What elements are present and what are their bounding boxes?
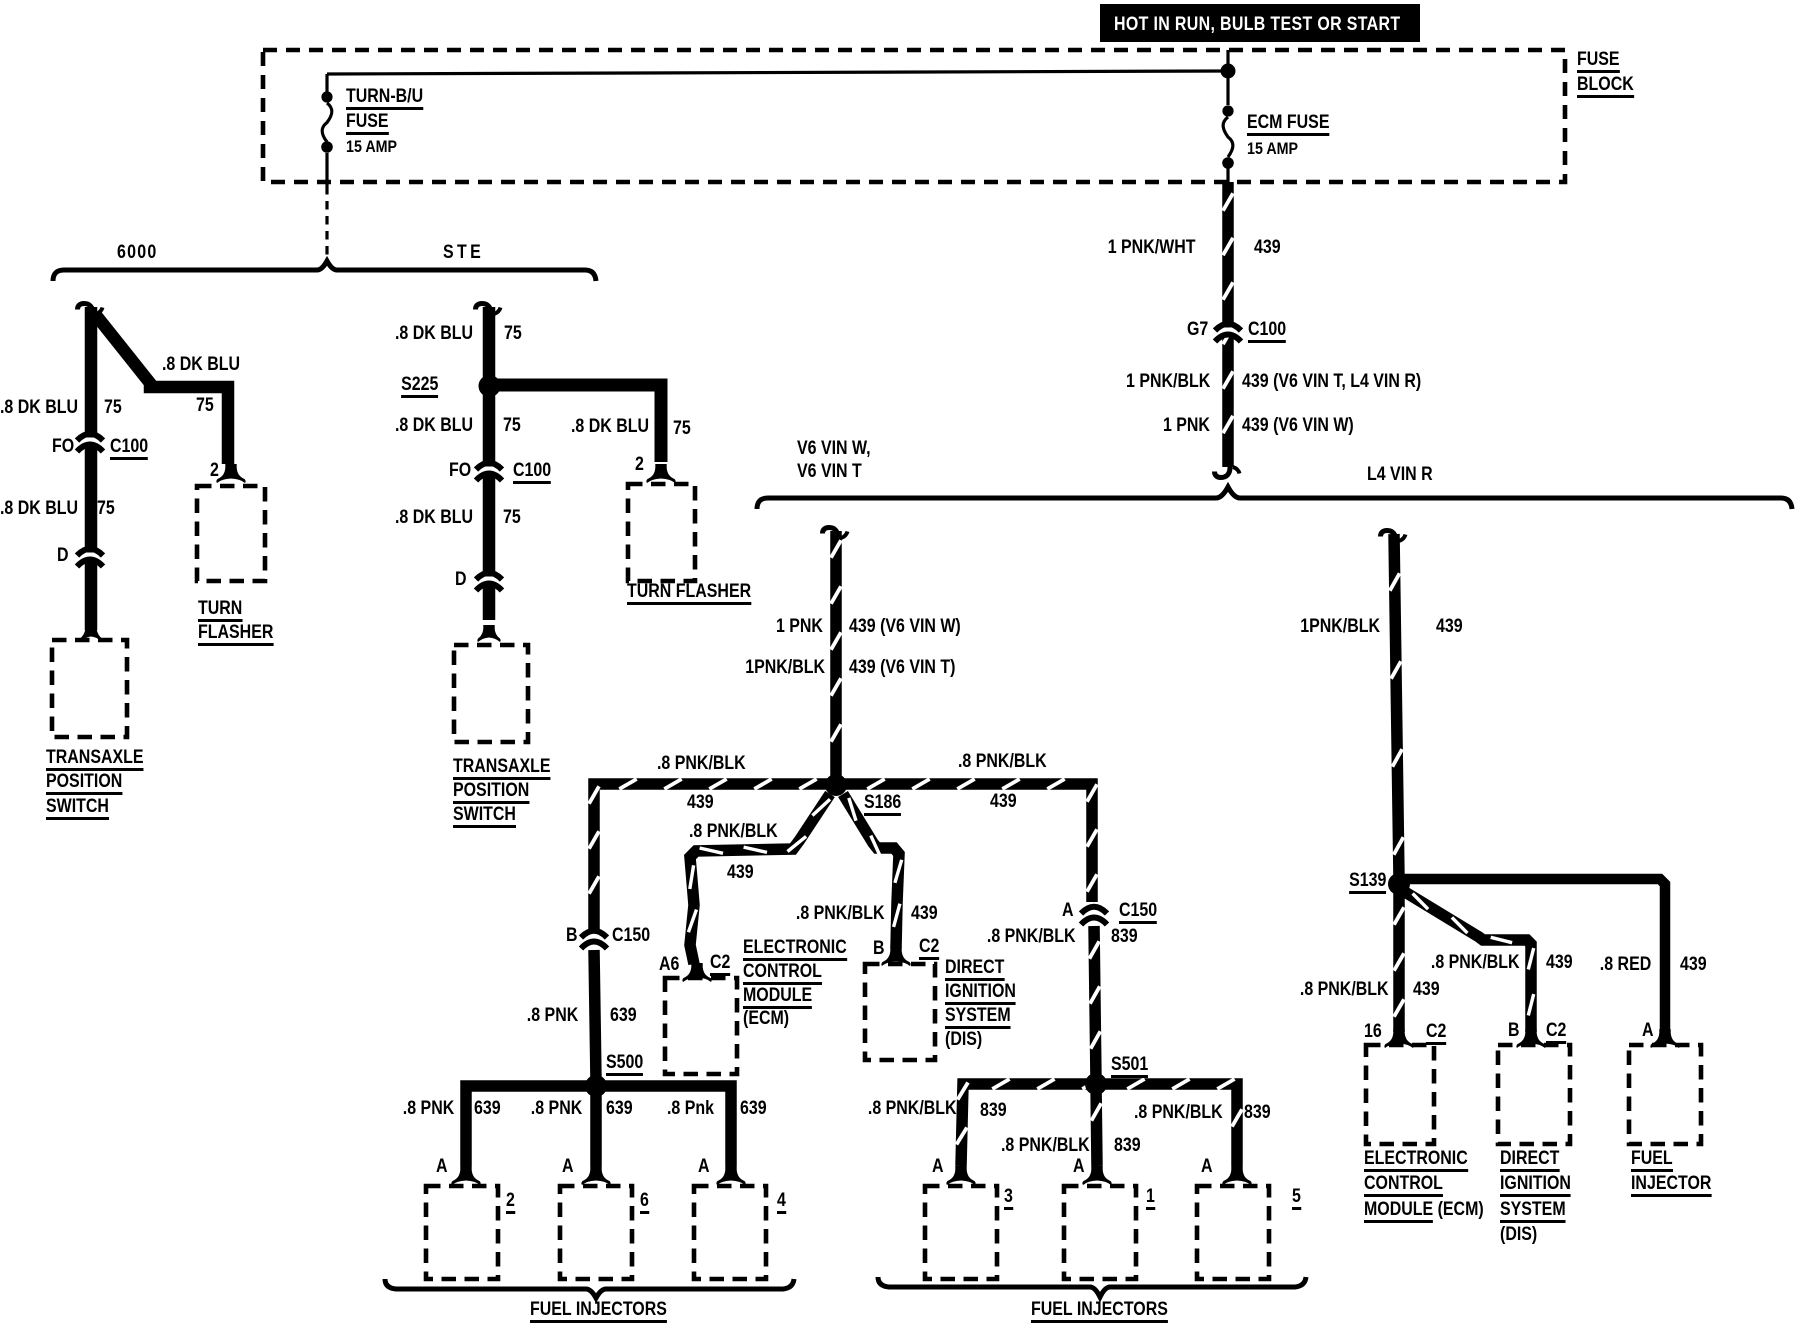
label .8 DK BLU (to left flasher) (162, 355, 240, 374)
wire .8 PNK/BLK 839 to injector 1 (1096, 1084, 1097, 1166)
label 3 (injector) (1004, 1187, 1013, 1210)
label (DIS) (center) (945, 1030, 982, 1049)
label C2 (ecm right) (1426, 1022, 1446, 1045)
label IGNITION (right) (1500, 1174, 1571, 1197)
label .8 PNK (inj6) (531, 1099, 582, 1118)
title bar HOT IN RUN, BULB TEST OR START (1100, 4, 1420, 42)
label INJECTOR (right) (1631, 1174, 1711, 1197)
wire 1 PNK/WHT 439 from ecm fuse (1222, 182, 1234, 467)
pin 2 flare into left turn flasher (216, 464, 245, 483)
label .8 PNK/BLK (inj3) (868, 1099, 957, 1118)
pin B flare into DIS (C2) (1516, 1029, 1545, 1048)
label A (inj4) (698, 1157, 710, 1176)
label pin 2 (left flasher) (210, 461, 219, 480)
label 6000 (117, 243, 158, 262)
box left turn flasher (197, 486, 265, 581)
wire .8 PNK/BLK 839 S501 manifold to injectors 3 and 5 (961, 1084, 1237, 1166)
wire ecm fuse feed stub from top edge (1226, 50, 1229, 71)
connector C100 terminal FO (STE) (475, 467, 504, 474)
box right transaxle position switch (454, 645, 528, 742)
pin flare into right transaxle position switch (477, 625, 500, 642)
label B (c2 right) (1508, 1021, 1520, 1040)
label .8 PNK/BLK (inj1) (1001, 1136, 1090, 1155)
box fuel injector 5 (1197, 1186, 1269, 1279)
label IGNITION (center) (945, 982, 1016, 1005)
pin A flare injector 6 (581, 1166, 610, 1185)
box fuel injector right (1629, 1045, 1701, 1144)
label 639 (inj4) (740, 1099, 767, 1118)
label 75 (6000 lower) (97, 499, 115, 518)
box direct ignition system center (DIS) (865, 964, 935, 1060)
label D (ste) (455, 570, 467, 589)
label C2 (a6) (710, 953, 730, 976)
label 75 (ste mid) (503, 416, 521, 435)
connector terminal D (STE) (475, 577, 504, 584)
label 2 (injector) (506, 1191, 515, 1214)
label 439 (to ecm a6) (727, 863, 754, 882)
label 439 (V6 VIN W) (1242, 416, 1354, 435)
connector C150 terminal A (1080, 911, 1109, 918)
label POSITION (left) (46, 772, 122, 795)
label 75 (ste upper) (504, 324, 522, 343)
label B (c2 dis) (873, 939, 885, 958)
label ECM FUSE (1247, 113, 1329, 136)
label .8 PNK/BLK (s139 dis) (1431, 953, 1520, 972)
label 439 (s139 ecm) (1413, 980, 1440, 999)
label .8 PNK/BLK (s186 right) (958, 752, 1047, 771)
label CONTROL (center) (743, 962, 822, 985)
label SYSTEM (right) (1500, 1200, 1566, 1223)
label .8 PNK/BLK (to dis b) (796, 904, 885, 923)
splice S225 (479, 375, 501, 397)
label .8 PNK (to s500) (527, 1006, 578, 1025)
label 75 (6000 upper) (104, 398, 122, 417)
label 1 PNK (v6) (776, 617, 823, 636)
label BLOCK (fuse block) (1577, 75, 1634, 98)
label S501 (1111, 1055, 1148, 1078)
fuse TURN-B/U FUSE 15 AMP (325, 74, 328, 92)
label C150 (a) (1119, 901, 1157, 924)
bracket fuel injectors group 1 (385, 1279, 794, 1298)
label D (6000) (57, 546, 69, 565)
label FUEL (right) (1631, 1149, 1673, 1172)
label .8 DK BLU (ste lower) (395, 508, 473, 527)
label SYSTEM (center) (945, 1006, 1011, 1029)
wire .8 PNK/BLK 439 S186 right arm (836, 784, 1092, 902)
label .8 PNK/BLK (s139 ecm) (1300, 980, 1389, 999)
label 839 (to s501) (1111, 927, 1138, 946)
label TURN FLASHER (right) (627, 582, 751, 605)
wire .8 PNK/BLK 439 S186 to DIS B (843, 794, 899, 948)
connector C100 terminal FO (6000) (76, 438, 105, 445)
pin A flare into fuel injector (1650, 1029, 1679, 1048)
label 75 (to right flasher) (673, 419, 691, 438)
label A6 (659, 955, 679, 974)
connector C100 terminal G7 (1214, 328, 1243, 335)
fuse block (dashed outline) (263, 50, 1565, 182)
label .8 PNK/BLK (to s501) (987, 927, 1076, 946)
label S225 (401, 375, 438, 398)
label .8 DK BLU (6000 lower) (0, 499, 78, 518)
label 639 (inj2) (474, 1099, 501, 1118)
label FO (ste) (449, 461, 471, 480)
label FUEL INJECTORS group 1 (530, 1300, 667, 1323)
label A (inj1) (1073, 1157, 1085, 1176)
wire dashed drop from turn-b/u fuse to 6000/STE bracket (325, 186, 328, 256)
label TRANSAXLE (ste) (453, 757, 551, 780)
label FLASHER (left flasher) (198, 623, 273, 646)
label TURN-B/U (346, 87, 423, 110)
bracket 6000/STE branch (53, 261, 596, 281)
label TRANSAXLE (left) (46, 748, 144, 771)
label A (inj2) (436, 1157, 448, 1176)
label V6 VIN W, (797, 439, 871, 458)
label .8 PNK/BLK (inj5) (1134, 1103, 1223, 1122)
label .8 RED (1600, 955, 1651, 974)
label 439 (s186 left) (687, 793, 714, 812)
label B (c150) (566, 926, 578, 945)
wire .8 DK BLU 75 (STE vertical) (483, 307, 496, 620)
wire feed line from turn-b/u fuse to ecm fuse (327, 71, 1228, 74)
connector terminal D (6000) (76, 553, 105, 560)
box fuel injector 2 (426, 1186, 498, 1279)
label POSITION (ste) (453, 781, 529, 804)
wire .8 DK BLU 75 from S225 to right turn flasher (495, 385, 661, 462)
label (DIS) (right) (1500, 1225, 1537, 1244)
box electronic control module center (ECM) (665, 978, 737, 1074)
label 839 (inj5) (1244, 1103, 1271, 1122)
wire .8 DK BLU 75 (6000 branch vertical) (85, 307, 98, 630)
pin A flare injector 2 (451, 1166, 480, 1185)
bracket V6 VIN W,T / L4 VIN R branch (757, 487, 1792, 509)
label 439 (pnk/wht) (1254, 238, 1281, 257)
wire .8 PNK/BLK 439 S139 to DIS B (1405, 892, 1531, 1032)
label 439 (V6 VIN T, L4 VIN R) (1242, 372, 1421, 391)
wire start curl V6 branch (823, 528, 839, 539)
label 16 (c2) (1364, 1022, 1382, 1041)
splice S139 (1388, 873, 1410, 895)
label 15 AMP (turn-b/u) (346, 138, 397, 155)
label 5 (injector) (1292, 1187, 1301, 1210)
pin B flare into DIS (C2) (881, 947, 910, 966)
label A (inj6) (562, 1157, 574, 1176)
label FUSE (turn-b/u) (346, 112, 389, 135)
label 639 (to s500) (610, 1006, 637, 1025)
label MODULE (center) (743, 986, 812, 1009)
label 439 (V6 VIN T) mid (849, 658, 955, 677)
wire start curl L4 branch (1381, 531, 1397, 542)
splice S186 (825, 774, 847, 796)
wire end curl above V6/L4 bracket (1215, 467, 1231, 478)
label 1 PNK/BLK (c100) (1126, 372, 1210, 391)
label C100 (g7) (1248, 320, 1286, 343)
label SWITCH (ste) (453, 805, 516, 828)
label A (fuel injector right) (1642, 1021, 1654, 1040)
box fuel injector 1 (1064, 1186, 1136, 1279)
label 639 (inj6) (606, 1099, 633, 1118)
pin A flare injector 5 (1222, 1166, 1251, 1185)
label 439 (red) (1680, 955, 1707, 974)
label 75 (to left flasher) (196, 396, 214, 415)
label 439 (l4) (1436, 617, 1463, 636)
wire .8 PNK 639 S500 manifold to injectors 2 and 4 (466, 1086, 731, 1166)
box fuel injector 4 (694, 1186, 766, 1279)
wire 1 PNK / 1 PNK-BLK 439 (V6 down to S186) (830, 531, 842, 780)
wire .8 PNK 639 from C150 B to S500 (594, 950, 596, 1080)
pin A flare injector 1 (1082, 1166, 1111, 1185)
label MODULE (ECM) (right) (1364, 1200, 1484, 1223)
label .8 PNK/BLK (to ecm a6) (689, 822, 778, 841)
label C100 (6000) (110, 437, 148, 460)
label .8 Pnk (inj4) (667, 1099, 714, 1118)
label 75 (ste lower) (503, 508, 521, 527)
label DIRECT (center) (945, 958, 1004, 981)
label .8 DK BLU (6000 upper) (0, 398, 78, 417)
label 839 (inj3) (980, 1101, 1007, 1120)
label STE (443, 243, 484, 262)
label 1 (injector) (1146, 1187, 1155, 1210)
label .8 PNK/BLK (s186 left) (657, 754, 746, 773)
box fuel injector 6 (560, 1186, 632, 1279)
label ELECTRONIC (center) (743, 938, 847, 961)
label 4 (injector) (777, 1191, 786, 1214)
fuse ECM FUSE 15 AMP (1226, 71, 1229, 105)
connector C150 terminal B (580, 935, 609, 942)
label SWITCH (left) (46, 797, 109, 820)
splice S500 (585, 1075, 607, 1097)
box left transaxle position switch (52, 640, 127, 737)
label 1 PNK (c100) (1163, 416, 1210, 435)
label 439 (V6 VIN W) mid (849, 617, 961, 636)
wire .8 PNK/BLK 839 from C150 A to S501 (1094, 926, 1096, 1080)
wire .8 DK BLU 75 branch to left turn flasher (95, 314, 228, 464)
label 439 (s186 right) (990, 792, 1017, 811)
label S500 (606, 1053, 643, 1076)
label FUEL INJECTORS group 2 (1031, 1300, 1168, 1323)
wire .8 PNK/BLK 439 S186 to ECM A6 (690, 794, 830, 964)
label .8 DK BLU (to right flasher) (571, 417, 649, 436)
wire .8 PNK/BLK 439 S186 left arm (594, 784, 836, 930)
box direct ignition system right (DIS) (1498, 1045, 1570, 1144)
wire start curl 6000 branch (78, 304, 94, 315)
label A (inj3) (932, 1157, 944, 1176)
label title HOT IN RUN, BULB TEST OR START (1114, 15, 1400, 34)
wire .8 PNK/BLK 439 S139 to ECM 16 (1393, 890, 1405, 1032)
junction ecm fuse feed (1221, 64, 1236, 79)
label 839 (inj1) (1114, 1136, 1141, 1155)
label CONTROL (right) (1364, 1174, 1443, 1197)
label 439 (s139 dis) (1546, 953, 1573, 972)
label S139 (1349, 871, 1386, 894)
label C150 (b) (612, 926, 650, 945)
pin A flare injector 4 (716, 1166, 745, 1185)
pin flare into left transaxle position switch (80, 625, 101, 641)
label pin 2 (right flasher) (635, 455, 644, 474)
label .8 PNK (inj2) (403, 1099, 454, 1118)
label .8 DK BLU (ste upper) (395, 324, 473, 343)
bracket fuel injectors group 2 (878, 1277, 1306, 1297)
label G7 (1187, 320, 1208, 339)
label TURN (left flasher) (198, 599, 242, 622)
label C100 (ste) (513, 461, 551, 484)
pin A6 flare into ECM (C2) (682, 963, 711, 982)
label 1PNK/BLK (l4) (1300, 617, 1380, 636)
label C2 (dis center) (919, 937, 939, 960)
label V6 VIN T (797, 462, 862, 481)
label L4 VIN R (1367, 465, 1433, 484)
label A (inj5) (1201, 1157, 1213, 1176)
label A (c150) (1062, 901, 1074, 920)
wire 1PNK/BLK 439 (L4 down to S139) (1394, 534, 1399, 878)
box electronic control module right (ECM) (1366, 1045, 1434, 1144)
label FO (6000) (52, 437, 74, 456)
label (ECM) (center) (743, 1009, 789, 1028)
label 439 (to dis b) (911, 904, 938, 923)
wire start curl STE branch (476, 304, 492, 315)
box fuel injector 3 (925, 1186, 997, 1279)
label .8 DK BLU (ste mid) (395, 416, 473, 435)
label 1 PNK/WHT (1107, 238, 1195, 257)
wire .8 RED 439 S139 to fuel injector A (1404, 879, 1665, 1032)
splice S501 (1085, 1073, 1107, 1095)
label 6 (injector) (640, 1191, 649, 1214)
label ELECTRONIC (right) (1364, 1149, 1468, 1172)
label 1PNK/BLK (v6) (745, 658, 825, 677)
label FUSE (fuse block) (1577, 50, 1620, 73)
label S186 (864, 793, 901, 816)
pin 2 flare into right turn flasher (646, 464, 675, 483)
box right turn flasher (628, 484, 695, 581)
wire .8 PNK 639 to injector 6 (590, 1086, 602, 1166)
label 15 AMP (ecm) (1247, 140, 1298, 157)
pin A flare injector 3 (946, 1166, 975, 1185)
pin 16 flare into ECM (C2) (1384, 1029, 1413, 1048)
label DIRECT (right) (1500, 1149, 1559, 1172)
label C2 (dis right) (1546, 1021, 1566, 1044)
